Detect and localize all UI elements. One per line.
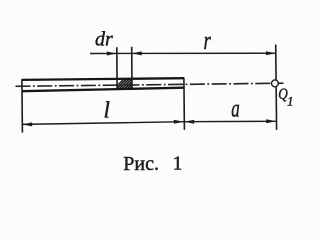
svg-text:a: a — [231, 94, 239, 122]
svg-text:r: r — [204, 26, 211, 55]
svg-text:1: 1 — [173, 153, 183, 175]
svg-text:dr: dr — [95, 29, 113, 51]
svg-text:l: l — [104, 97, 110, 122]
svg-text:1: 1 — [287, 93, 294, 108]
svg-text:Рис.: Рис. — [123, 153, 159, 175]
